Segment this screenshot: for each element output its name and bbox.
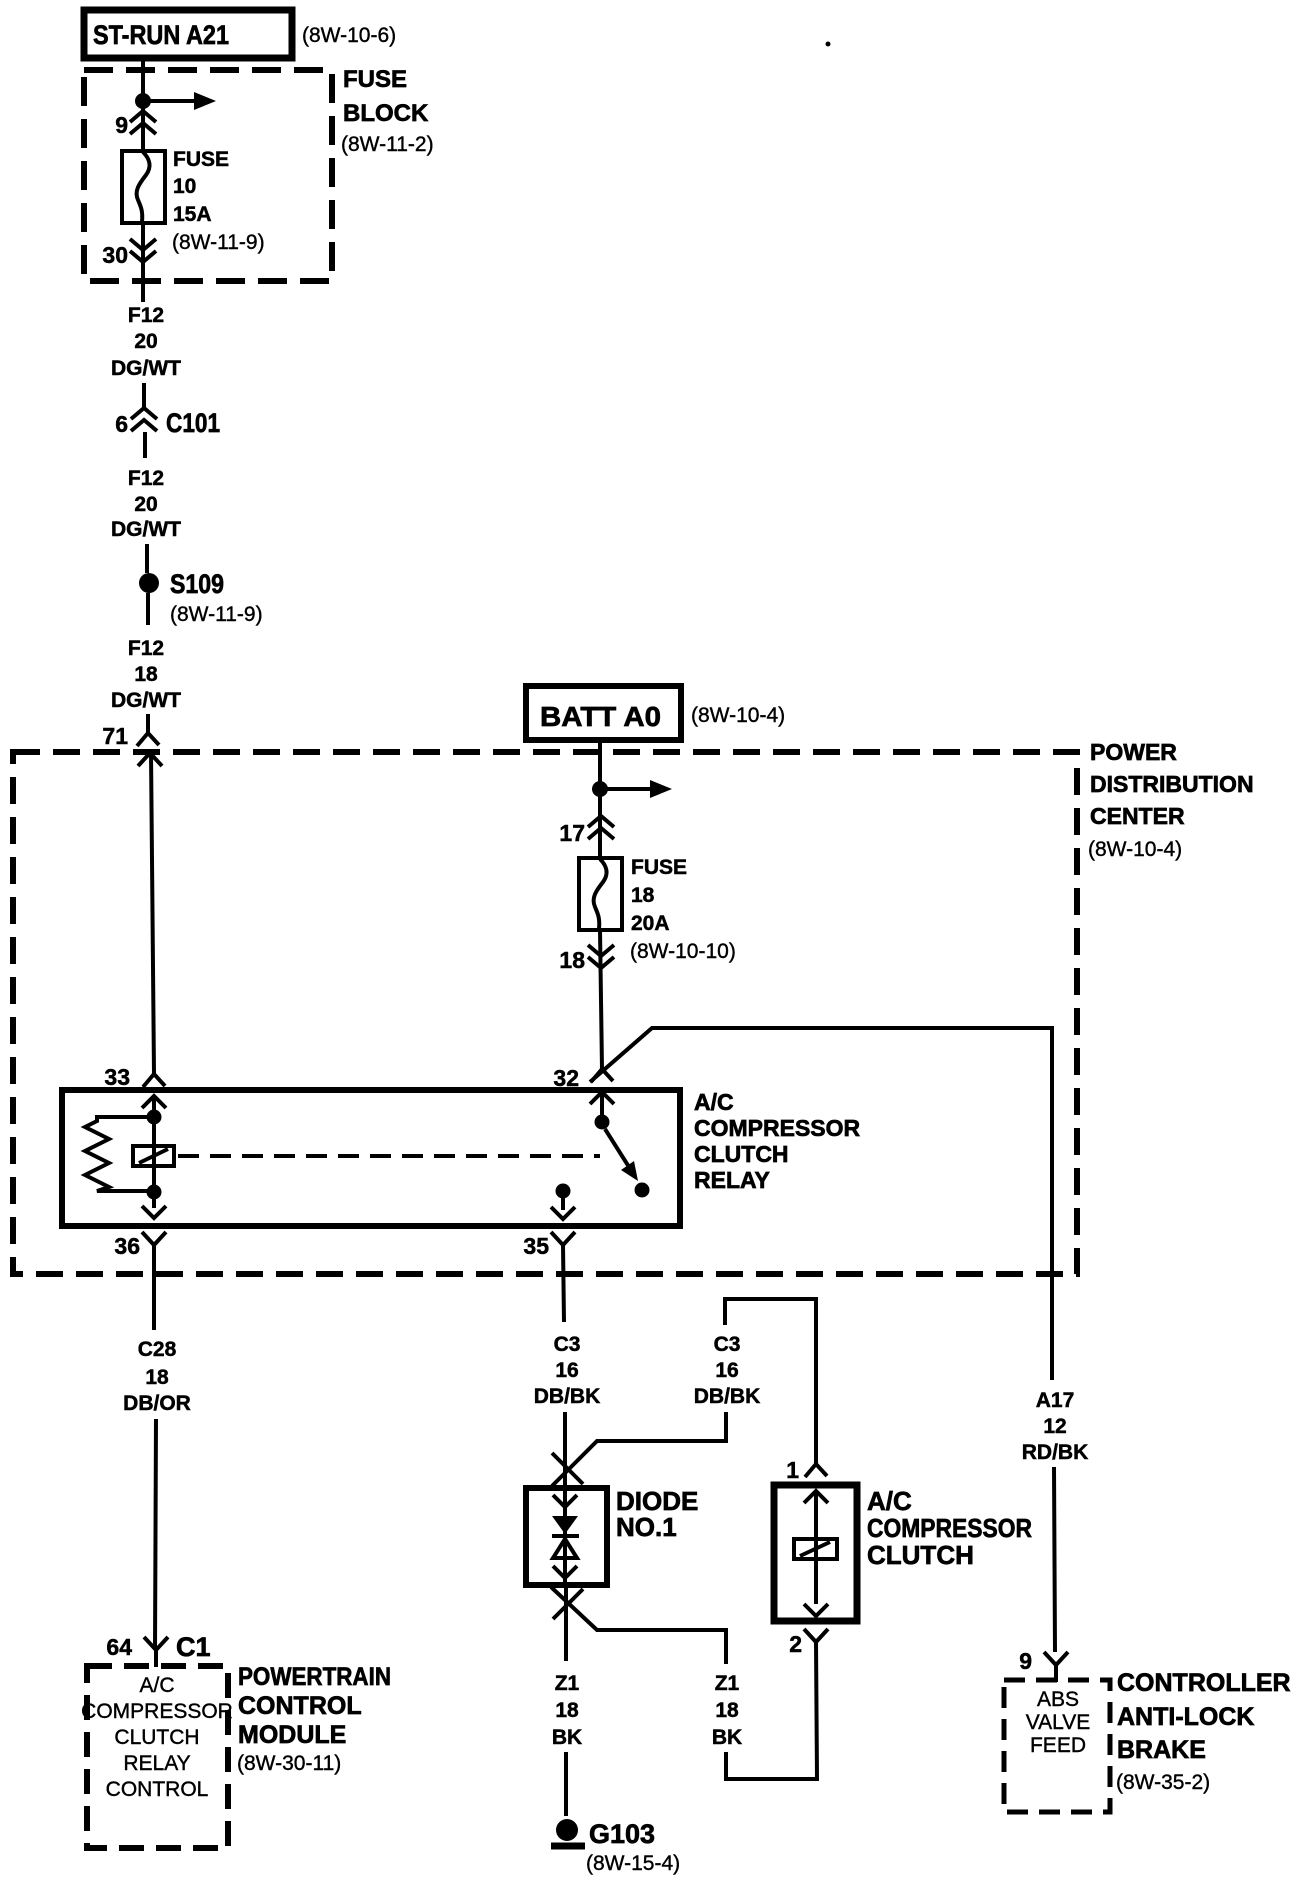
wire pin35 to diode bbox=[563, 1412, 567, 1488]
node junction dot with arrow bbox=[592, 780, 672, 798]
pin 17 connector bbox=[559, 816, 614, 846]
svg-text:18: 18 bbox=[134, 663, 158, 686]
pin 18 connector bbox=[559, 945, 614, 973]
pin 9 connector bbox=[115, 111, 156, 138]
diode no.1 box bbox=[526, 1488, 607, 1585]
svg-text:18: 18 bbox=[559, 947, 585, 973]
diode internal wire bbox=[563, 1488, 567, 1585]
fuse 10 value labels bbox=[172, 148, 265, 254]
relay label bbox=[694, 1089, 861, 1193]
fuse 18 value labels bbox=[630, 856, 736, 963]
wire label F12 20 DG/WT bbox=[111, 304, 181, 380]
pin 1 connector bbox=[786, 1457, 828, 1503]
svg-text:A/C: A/C bbox=[867, 1486, 912, 1516]
svg-text:(8W-35-2): (8W-35-2) bbox=[1116, 1771, 1210, 1794]
pin 33 connector bbox=[104, 1064, 166, 1108]
svg-text:16: 16 bbox=[555, 1359, 578, 1382]
diode bottom chevron bbox=[553, 1566, 577, 1578]
svg-text:VALVE: VALVE bbox=[1026, 1711, 1091, 1734]
clutch internal wire bbox=[814, 1491, 818, 1604]
relay pin 35 dot bbox=[556, 1184, 571, 1199]
svg-text:18: 18 bbox=[631, 884, 655, 907]
svg-text:Z1: Z1 bbox=[715, 1672, 740, 1695]
svg-text:18: 18 bbox=[555, 1699, 579, 1722]
wire bbox=[146, 593, 150, 625]
svg-text:10: 10 bbox=[173, 175, 196, 198]
svg-text:COMPRESSOR: COMPRESSOR bbox=[867, 1513, 1032, 1543]
svg-text:DG/WT: DG/WT bbox=[111, 518, 181, 541]
connector C1 pin 64 bbox=[106, 1632, 210, 1667]
svg-text:18: 18 bbox=[715, 1699, 739, 1722]
wire fuse to F12 label bbox=[141, 223, 145, 302]
svg-text:17: 17 bbox=[559, 820, 585, 846]
svg-text:COMPRESSOR: COMPRESSOR bbox=[81, 1700, 233, 1723]
clutch label bbox=[867, 1486, 1032, 1570]
svg-text:CLUTCH: CLUTCH bbox=[867, 1540, 974, 1570]
svg-text:30: 30 bbox=[102, 242, 128, 268]
svg-text:6: 6 bbox=[115, 411, 128, 437]
svg-text:(8W-11-2): (8W-11-2) bbox=[341, 133, 434, 156]
svg-text:16: 16 bbox=[715, 1359, 738, 1382]
wire label F12 18 DG/WT bbox=[111, 637, 181, 712]
wire from clutch pin 1 up and over bbox=[725, 1299, 816, 1464]
svg-text:C28: C28 bbox=[138, 1338, 177, 1361]
wire label C3 16 DB/BK left bbox=[534, 1333, 601, 1408]
wire bbox=[142, 383, 146, 408]
svg-text:DB/OR: DB/OR bbox=[123, 1392, 191, 1415]
relay pin 35 arrow bbox=[551, 1196, 575, 1219]
relay switch wire bbox=[600, 1092, 604, 1116]
svg-text:A/C: A/C bbox=[694, 1089, 734, 1115]
svg-text:DB/BK: DB/BK bbox=[534, 1385, 601, 1408]
diode label bbox=[616, 1486, 698, 1542]
wire relay pin 32 to ABS valve feed bbox=[590, 1028, 1052, 1380]
svg-text:BK: BK bbox=[552, 1726, 582, 1749]
relay coil symbol bbox=[133, 1146, 174, 1166]
svg-text:DG/WT: DG/WT bbox=[111, 689, 181, 712]
wire clutch pin 2 to ground branch bbox=[726, 1642, 817, 1779]
powertrain control module dashed box bbox=[81, 1666, 233, 1848]
power distribution center label bbox=[1088, 739, 1254, 861]
wire bbox=[146, 714, 150, 733]
wire A17 to ABS bbox=[1054, 1467, 1055, 1652]
scan speck bbox=[826, 42, 831, 47]
svg-text:A17: A17 bbox=[1036, 1389, 1075, 1412]
relay coil wire bbox=[152, 1096, 156, 1208]
net label ST-RUN A21 bbox=[84, 10, 292, 58]
clutch bottom arrow bbox=[804, 1604, 828, 1616]
svg-text:9: 9 bbox=[1019, 1648, 1032, 1674]
ground G103 bbox=[551, 1819, 680, 1875]
wire label F12 20 DG/WT bbox=[111, 467, 181, 541]
svg-text:ANTI-LOCK: ANTI-LOCK bbox=[1117, 1703, 1254, 1731]
svg-text:(8W-11-9): (8W-11-9) bbox=[172, 231, 265, 254]
svg-text:CONTROLLER: CONTROLLER bbox=[1117, 1669, 1291, 1697]
relay switch common dot bbox=[595, 1115, 610, 1130]
svg-text:1: 1 bbox=[786, 1457, 799, 1483]
svg-text:S109: S109 bbox=[170, 569, 224, 599]
svg-text:20: 20 bbox=[134, 330, 157, 353]
svg-text:Z1: Z1 bbox=[555, 1672, 580, 1695]
svg-text:33: 33 bbox=[104, 1064, 130, 1090]
svg-text:RELAY: RELAY bbox=[123, 1752, 190, 1775]
svg-text:12: 12 bbox=[1043, 1415, 1066, 1438]
relay coil top junction bbox=[147, 1110, 162, 1125]
pin 35 connector below relay bbox=[523, 1232, 575, 1322]
svg-text:35: 35 bbox=[523, 1233, 549, 1259]
svg-text:G103: G103 bbox=[589, 1819, 655, 1849]
diode top chevron bbox=[553, 1495, 577, 1507]
svg-text:POWER: POWER bbox=[1090, 739, 1177, 765]
svg-text:CONTROL: CONTROL bbox=[238, 1692, 362, 1720]
wire from ST-RUN A21 to fuse 10 bbox=[141, 58, 145, 152]
svg-text:(8W-10-4): (8W-10-4) bbox=[1088, 838, 1182, 861]
pin 2 connector bbox=[789, 1629, 828, 1657]
svg-text:ABS: ABS bbox=[1037, 1688, 1079, 1711]
svg-text:F12: F12 bbox=[128, 637, 164, 660]
fuse F10 15A bbox=[122, 151, 165, 223]
svg-text:CLUTCH: CLUTCH bbox=[694, 1141, 789, 1167]
relay switch arm with arrowhead bbox=[605, 1129, 638, 1181]
svg-text:36: 36 bbox=[114, 1233, 140, 1259]
splice S109 bbox=[139, 569, 263, 626]
svg-text:BATT A0: BATT A0 bbox=[540, 701, 661, 732]
svg-text:DB/BK: DB/BK bbox=[694, 1385, 761, 1408]
svg-text:DG/WT: DG/WT bbox=[111, 357, 181, 380]
ABS valve feed dashed box bbox=[1004, 1680, 1110, 1812]
pin 30 connector bbox=[102, 239, 156, 268]
node junction dot with arrow bbox=[135, 92, 216, 110]
svg-text:FUSE: FUSE bbox=[343, 66, 407, 93]
net label BATT A0 bbox=[526, 686, 681, 740]
pin 71 connector bbox=[102, 723, 162, 766]
relay resistor bbox=[85, 1117, 154, 1191]
svg-text:(8W-10-6): (8W-10-6) bbox=[302, 24, 396, 47]
wire label A17 12 RD/BK bbox=[1022, 1389, 1089, 1464]
svg-text:RELAY: RELAY bbox=[694, 1167, 770, 1193]
svg-text:BK: BK bbox=[712, 1726, 742, 1749]
svg-text:(8W-10-10): (8W-10-10) bbox=[630, 940, 736, 963]
svg-text:RD/BK: RD/BK bbox=[1022, 1441, 1089, 1464]
svg-text:64: 64 bbox=[106, 1634, 132, 1660]
controller anti-lock brake label bbox=[1116, 1669, 1291, 1794]
svg-text:DISTRIBUTION: DISTRIBUTION bbox=[1090, 771, 1254, 797]
svg-text:ST-RUN A21: ST-RUN A21 bbox=[93, 20, 229, 50]
svg-text:BRAKE: BRAKE bbox=[1117, 1736, 1206, 1764]
relay coil-switch dashed link bbox=[178, 1154, 600, 1158]
wire diode to ground bbox=[564, 1585, 568, 1661]
svg-text:A/C: A/C bbox=[139, 1674, 174, 1697]
fuse F18 20A bbox=[579, 858, 622, 930]
relay coil bottom junction bbox=[147, 1185, 162, 1200]
wire pin 71 to relay pin 33 bbox=[151, 753, 154, 1074]
svg-text:20A: 20A bbox=[631, 912, 670, 935]
pin 36 arrow inside relay bbox=[142, 1206, 166, 1218]
wire to PCM bbox=[155, 1419, 156, 1650]
A/C compressor clutch relay box bbox=[62, 1090, 680, 1226]
svg-text:POWERTRAIN: POWERTRAIN bbox=[238, 1663, 391, 1691]
pin 36 connector below relay bbox=[114, 1232, 166, 1330]
diode element bbox=[552, 1516, 579, 1558]
svg-text:20: 20 bbox=[134, 493, 157, 516]
svg-text:CLUTCH: CLUTCH bbox=[114, 1726, 199, 1749]
svg-text:15A: 15A bbox=[173, 203, 212, 226]
wire label Z1 18 BK right bbox=[712, 1672, 742, 1749]
svg-text:18: 18 bbox=[145, 1366, 169, 1389]
power distribution center dashed box bbox=[13, 752, 1077, 1274]
svg-text:(8W-15-4): (8W-15-4) bbox=[586, 1852, 680, 1875]
svg-text:C101: C101 bbox=[166, 408, 220, 438]
wire label Z1 18 BK left bbox=[552, 1672, 582, 1749]
wire bbox=[145, 544, 149, 573]
fuse block dashed box bbox=[84, 66, 434, 281]
wire label C3 16 DB/BK right bbox=[694, 1333, 761, 1408]
svg-text:2: 2 bbox=[789, 1631, 802, 1657]
svg-text:F12: F12 bbox=[128, 304, 164, 327]
svg-text:MODULE: MODULE bbox=[238, 1721, 346, 1749]
svg-text:9: 9 bbox=[115, 112, 128, 138]
connector C101 bbox=[115, 408, 220, 458]
svg-text:(8W-30-11): (8W-30-11) bbox=[237, 1752, 341, 1775]
svg-text:CENTER: CENTER bbox=[1090, 803, 1185, 829]
svg-text:FUSE: FUSE bbox=[631, 856, 687, 879]
wire label C28 18 DB/OR bbox=[123, 1338, 191, 1415]
clutch coil symbol bbox=[794, 1539, 837, 1559]
relay switch pin 32 chevron bbox=[590, 1092, 614, 1104]
svg-text:BLOCK: BLOCK bbox=[343, 100, 429, 127]
X splice below diode with branch to clutch ground bbox=[551, 1587, 726, 1664]
wire to G103 bbox=[564, 1752, 568, 1816]
pin 32 connector bbox=[553, 1065, 613, 1091]
pin 9 connector ABS bbox=[1019, 1648, 1068, 1682]
svg-text:C3: C3 bbox=[714, 1333, 741, 1356]
wire BATT A0 down to fuse 18 bbox=[598, 740, 602, 860]
relay switch contact dot bbox=[635, 1183, 650, 1198]
A/C compressor clutch box bbox=[774, 1485, 857, 1621]
wire fuse 18 to relay pin 32 bbox=[600, 930, 602, 1069]
svg-text:C3: C3 bbox=[554, 1333, 581, 1356]
svg-text:CONTROL: CONTROL bbox=[106, 1778, 209, 1801]
powertrain control module label bbox=[237, 1663, 391, 1775]
svg-text:(8W-11-9): (8W-11-9) bbox=[170, 603, 263, 626]
svg-text:(8W-10-4): (8W-10-4) bbox=[691, 704, 785, 727]
svg-text:C1: C1 bbox=[176, 1632, 211, 1662]
svg-text:FUSE: FUSE bbox=[173, 148, 229, 171]
branch wire from clutch feed to diode (X splice) bbox=[552, 1412, 726, 1486]
svg-text:FEED: FEED bbox=[1030, 1734, 1086, 1757]
svg-text:71: 71 bbox=[102, 723, 128, 749]
svg-text:NO.1: NO.1 bbox=[616, 1512, 677, 1542]
svg-text:COMPRESSOR: COMPRESSOR bbox=[694, 1115, 861, 1141]
svg-text:F12: F12 bbox=[128, 467, 164, 490]
